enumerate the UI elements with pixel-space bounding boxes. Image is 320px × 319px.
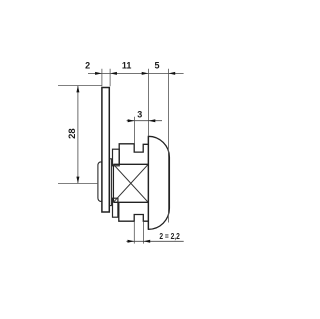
3 dim line [127, 120, 162, 122]
svg-text:2: 2 [85, 60, 90, 70]
bottom block with slot [119, 202, 148, 221]
extension line x=101.9 [101, 69, 103, 86]
boss (rounded flange left of cam plate) [98, 162, 104, 202]
cap left face [147, 136, 149, 229]
X diagonals [113, 164, 148, 202]
3 arrows [128, 119, 135, 122]
bottom shoulder block [113, 198, 118, 217]
svg-text:2 = 2,2: 2 = 2,2 [159, 232, 180, 241]
28 arrows [76, 86, 79, 93]
extension line x=148.5 (down to cap top) [148, 69, 150, 136]
cam plate [102, 88, 109, 213]
arrowheads top dims [95, 72, 102, 75]
28 dim: bottom extension [58, 182, 98, 184]
housing X-box [113, 164, 148, 202]
svg-text:28: 28 [67, 128, 78, 139]
top shoulder block [113, 149, 120, 166]
neck (shaft between plate and body) [110, 159, 112, 206]
top block with slot [119, 144, 148, 165]
28 dim line [77, 86, 79, 184]
3 dim left extension [134, 117, 136, 144]
svg-text:3: 3 [137, 109, 142, 119]
bottom dim line [126, 240, 183, 242]
extension line x=110.1 [109, 69, 111, 86]
cap (rounded head) [148, 136, 169, 229]
28 dim: top extension [58, 85, 102, 87]
bottom arrows [128, 240, 135, 243]
extension line x=168.4 (through cap) [167, 69, 169, 223]
svg-text:11: 11 [122, 60, 132, 70]
svg-text:5: 5 [154, 60, 159, 70]
bottom dim extensions [133, 222, 135, 244]
top dimension line [88, 72, 184, 74]
